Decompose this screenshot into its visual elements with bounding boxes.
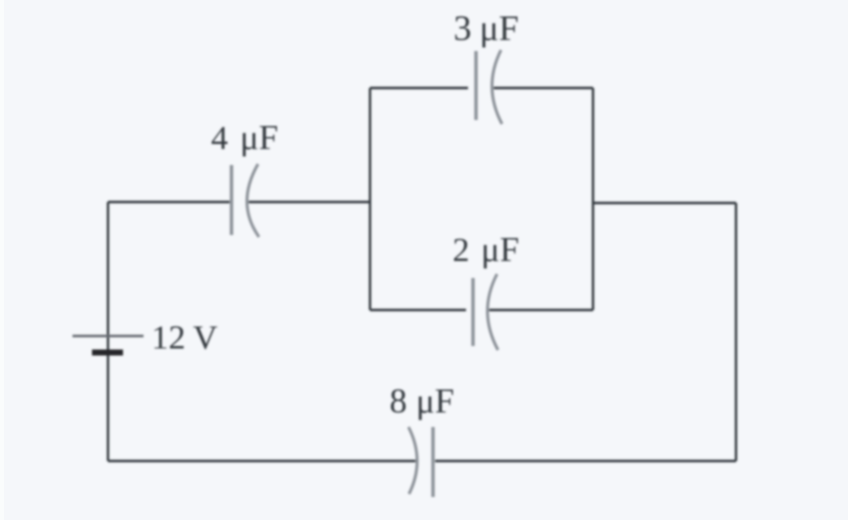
svg-text:μF: μF — [416, 382, 454, 421]
svg-text:3: 3 — [454, 8, 472, 48]
svg-text:V: V — [193, 320, 218, 357]
svg-text:μF: μF — [481, 230, 519, 269]
svg-text:μF: μF — [240, 118, 278, 157]
svg-text:2: 2 — [453, 232, 470, 269]
svg-text:4: 4 — [211, 120, 228, 157]
svg-text:8: 8 — [390, 382, 408, 421]
svg-text:μF: μF — [480, 8, 519, 48]
svg-text:12: 12 — [152, 320, 186, 357]
